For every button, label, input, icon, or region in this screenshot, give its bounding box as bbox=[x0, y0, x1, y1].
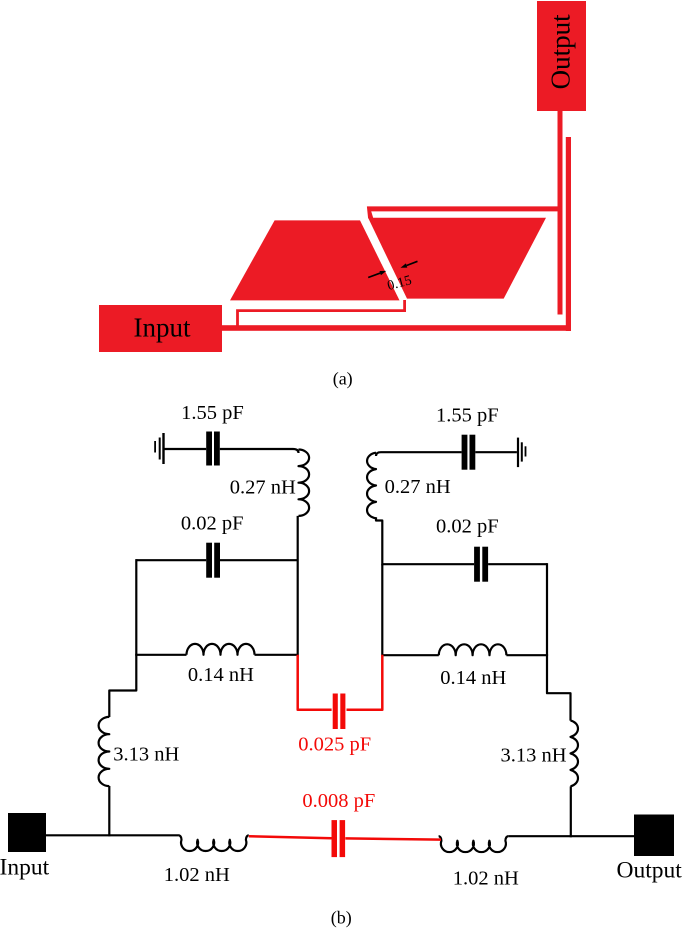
wire L8 to output square bbox=[508, 835, 634, 837]
wire L7 down to bottom row bbox=[570, 786, 572, 837]
inductor L5 0.27 nH (right, vertical, bumps left) bbox=[367, 453, 376, 519]
gap dimension arrow (left) bbox=[368, 271, 386, 278]
wire C1 to L1 bbox=[220, 449, 299, 453]
wire right resonator spine bbox=[381, 564, 383, 656]
svg-text:(b): (b) bbox=[331, 908, 352, 929]
coupled line A (output feed) bbox=[558, 111, 563, 315]
inductor L8 1.02 nH (right, horizontal, bumps down) bbox=[439, 836, 509, 852]
coupling capacitor 0.025 pF (red) plates bbox=[333, 694, 346, 730]
svg-text:1.02 nH: 1.02 nH bbox=[164, 864, 230, 886]
capacitor C4 0.02 pF (right) bbox=[474, 547, 488, 582]
svg-text:3.13 nH: 3.13 nH bbox=[500, 745, 566, 767]
wire 0.02 row right resonator right segment bbox=[488, 563, 547, 565]
input port pad bbox=[99, 305, 222, 352]
wire 0.02 row right resonator left segment bbox=[382, 563, 474, 565]
wire C3 to L5 bbox=[376, 452, 462, 456]
svg-text:0.008 pF: 0.008 pF bbox=[302, 790, 375, 812]
wire right branch vertical bbox=[546, 563, 548, 656]
wire L5 step to spine bbox=[376, 517, 382, 565]
input feed line (horizontal) bbox=[222, 325, 571, 331]
capacitor C1 1.55 pF (left) bbox=[206, 432, 220, 466]
right trapezoid patch bbox=[368, 218, 546, 299]
wire 0.14 row left segment bbox=[136, 654, 186, 656]
capacitor C2 0.02 pF (left) bbox=[206, 543, 220, 578]
svg-text:1.02 nH: 1.02 nH bbox=[453, 868, 519, 890]
gap dimension arrow (right) bbox=[401, 261, 418, 267]
wire below 0.14 row to jog (right) bbox=[547, 654, 571, 720]
svg-text:1.55 pF: 1.55 pF bbox=[181, 402, 244, 424]
inductor L2 0.14 nH (left, horizontal, bumps up) bbox=[187, 644, 255, 655]
coupled line B (input feed riser) bbox=[566, 137, 571, 331]
svg-text:0.02 pF: 0.02 pF bbox=[436, 516, 499, 538]
svg-text:(a): (a) bbox=[333, 369, 353, 390]
inductor L4 1.02 nH (left, horizontal, bumps down) bbox=[179, 835, 249, 851]
inductor L1 0.27 nH (left, vertical, bumps right) bbox=[299, 450, 310, 516]
wire below 0.14 row to jog (left) bbox=[109, 654, 136, 717]
svg-text:0.14 nH: 0.14 nH bbox=[188, 664, 254, 686]
svg-text:1.55 pF: 1.55 pF bbox=[436, 405, 499, 427]
svg-text:0.025 pF: 0.025 pF bbox=[298, 734, 371, 756]
wire 0.14 row right resonator left segment bbox=[382, 654, 439, 656]
wire 0.02 row left segment bbox=[136, 559, 206, 561]
svg-text:0.02 pF: 0.02 pF bbox=[181, 513, 244, 535]
coupling capacitor 0.025 pF (red) wires bbox=[298, 655, 332, 710]
wire ground to C3 bbox=[475, 451, 517, 453]
wire 0.14 row right resonator right segment bbox=[506, 654, 547, 656]
wire 0.02 row right segment bbox=[220, 559, 298, 561]
wire ground to C1 bbox=[165, 448, 207, 450]
svg-text:Input: Input bbox=[0, 854, 50, 880]
capacitor C3 1.55 pF (right) bbox=[462, 435, 476, 470]
input tap strip (thin line) bbox=[238, 300, 405, 328]
wire L1 down to 0.14 row (left resonator spine) bbox=[297, 516, 299, 656]
svg-text:Output: Output bbox=[546, 14, 576, 90]
svg-text:Output: Output bbox=[617, 858, 683, 884]
coupling capacitor 0.008 pF (red) wires bbox=[249, 836, 332, 838]
wire 0.14 row right segment bbox=[255, 654, 298, 656]
wire left branch vertical bbox=[135, 559, 137, 656]
right patch top outline strip bbox=[367, 206, 562, 211]
port Input (black square) bbox=[8, 813, 46, 852]
output port pad bbox=[537, 1, 586, 111]
svg-text:Input: Input bbox=[134, 313, 191, 343]
wire L3 down to bottom row bbox=[108, 786, 110, 836]
svg-text:0.27 nH: 0.27 nH bbox=[385, 476, 451, 498]
inductor L7 3.13 nH (right, vertical, bumps right) bbox=[571, 720, 578, 786]
inductor L3 3.13 nH (left, vertical, bumps left) bbox=[99, 717, 110, 786]
left trapezoid patch bbox=[230, 220, 400, 300]
right patch outline diagonal connector bbox=[367, 207, 373, 219]
svg-text:3.13 nH: 3.13 nH bbox=[113, 744, 179, 766]
ground (left) bbox=[154, 433, 165, 464]
svg-text:0.27 nH: 0.27 nH bbox=[230, 477, 296, 499]
port Output (black square) bbox=[634, 815, 674, 857]
wire input square to L4 bbox=[46, 834, 179, 836]
coupling capacitor 0.008 pF (red) plates bbox=[332, 820, 346, 857]
inductor L6 0.14 nH (right, horizontal, bumps up) bbox=[439, 644, 507, 655]
svg-text:0.14 nH: 0.14 nH bbox=[440, 667, 506, 689]
ground (right) bbox=[517, 438, 526, 468]
